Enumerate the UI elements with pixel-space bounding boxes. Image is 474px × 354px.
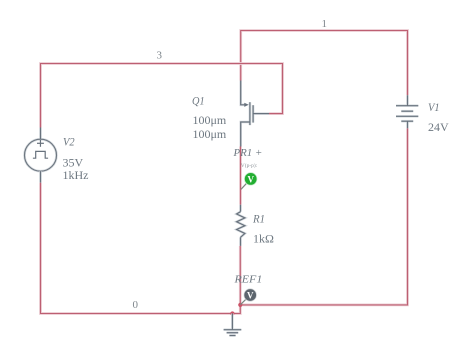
svg-text:1: 1 (322, 18, 328, 30)
probe PR1 (241, 172, 257, 189)
wire net 1 (Q1 drain to V1 +) (241, 31, 408, 96)
wire Q1 source to R1 (239, 147, 242, 205)
svg-text:V2: V2 (63, 135, 75, 149)
junction dot (R1 / V1 / REF1 node) (238, 303, 242, 307)
svg-text:100μm: 100μm (193, 127, 227, 141)
svg-text:PR1 +: PR1 + (233, 147, 263, 159)
svg-text:V(p-p):: V(p-p): (241, 162, 258, 169)
svg-text:1kHz: 1kHz (63, 168, 89, 182)
battery V1 (396, 95, 418, 128)
resistor R1 (237, 205, 245, 246)
svg-text:100μm: 100μm (193, 113, 227, 127)
junction dot (ground node) (230, 311, 234, 315)
transistor Q1 (MOSFET) (241, 81, 269, 147)
svg-text:REF1: REF1 (233, 274, 262, 286)
svg-text:24V: 24V (428, 120, 449, 134)
svg-text:0: 0 (133, 299, 139, 311)
svg-text:1kΩ: 1kΩ (253, 232, 274, 246)
svg-text:V1: V1 (428, 100, 440, 114)
wire R1 bottom to node 0 junction (239, 246, 242, 305)
ground (224, 314, 242, 336)
wire net 0 right segment (junction to V1 -) (240, 128, 407, 305)
wire net 3 (V2 + to Q1 gate) (41, 64, 283, 128)
svg-text:V: V (247, 174, 254, 184)
svg-text:R1: R1 (252, 211, 265, 225)
probe REF1 (240, 288, 256, 304)
svg-text:3: 3 (157, 50, 163, 62)
svg-text:Q1: Q1 (192, 94, 205, 108)
svg-text:V: V (247, 290, 254, 300)
wire net 0 left segment (junction, ground, V2 -) (41, 183, 241, 314)
source V2 (square-wave voltage source) (25, 128, 57, 183)
